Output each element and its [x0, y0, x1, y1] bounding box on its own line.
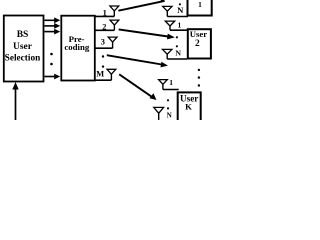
svg-text:2: 2 [195, 39, 200, 49]
user 2 antenna 1 funnel [165, 21, 174, 26]
radiating line antenna 1 to user 1 [118, 1, 164, 11]
svg-text:User: User [190, 29, 208, 39]
block User 1 (top cut off) [188, 0, 212, 16]
user 1 antenna N mast [166, 11, 168, 16]
svg-text:N: N [175, 48, 181, 57]
block BS User Selection [4, 16, 44, 82]
user 2 antenna N mast [166, 54, 168, 59]
antenna 2 funnel [110, 20, 119, 25]
svg-text:1: 1 [169, 78, 173, 87]
antenna M funnel [107, 69, 116, 74]
arrow BS to precoding 2 [45, 25, 56, 27]
svg-text:1: 1 [198, 0, 202, 9]
feed line antenna 1 [95, 15, 114, 17]
svg-text:coding: coding [64, 42, 90, 52]
arrow BS to precoding 3 [45, 31, 56, 33]
radiating arrow 3 (to middle users) [107, 55, 162, 64]
svg-text:N: N [167, 112, 173, 120]
feed line antenna M [95, 79, 111, 81]
mast antenna 1 [113, 10, 115, 16]
dot above N (user 1) [179, 3, 181, 5]
svg-text:M: M [96, 69, 104, 78]
svg-text:Selection: Selection [5, 54, 41, 64]
user 2 antenna 1 feed [170, 29, 187, 31]
block User K [178, 92, 201, 122]
radiating arrow antenna 2 to user 2 [119, 29, 168, 36]
block User 2 [188, 29, 211, 58]
user K antenna 1 feed [163, 89, 179, 91]
dots user K antennas [167, 99, 169, 101]
feed line antenna 2 [95, 29, 114, 31]
svg-text:2: 2 [102, 22, 106, 31]
user 1 antenna N funnel [163, 6, 172, 11]
arrow BS to precoding 1 [45, 19, 56, 21]
radiating arrow antenna M to user K [119, 74, 152, 97]
mast antenna 2 [113, 25, 115, 31]
antenna 1 funnel [110, 6, 119, 11]
mast antenna M [110, 74, 112, 80]
arrow BS to precoding bottom [45, 76, 56, 78]
feed line antenna 3 [95, 47, 113, 49]
antenna 3 funnel [108, 37, 117, 42]
svg-text:K: K [185, 102, 192, 112]
svg-text:N: N [177, 5, 184, 15]
user K antenna 1 funnel [159, 80, 168, 85]
svg-text:BS: BS [17, 30, 29, 40]
input arrow into BS block from bottom [15, 88, 17, 120]
dots between arrows [50, 53, 53, 56]
user K antenna 1 mast [162, 84, 164, 89]
user K antenna N mast [158, 113, 160, 120]
user K antenna N funnel [154, 107, 164, 113]
dots between user 2 and user K [198, 69, 200, 71]
svg-text:User: User [13, 42, 33, 52]
dots between antenna 3 and M [102, 55, 104, 57]
user 2 antenna N feed [167, 58, 187, 60]
mast antenna 3 [112, 42, 114, 49]
svg-text:1: 1 [178, 21, 182, 30]
dots user 2 antennas [176, 36, 178, 38]
user 1 antenna N feed [167, 16, 188, 18]
block Pre-coding [61, 16, 95, 81]
user 2 antenna 1 mast [169, 26, 171, 30]
svg-text:1: 1 [103, 8, 107, 17]
user 2 antenna N funnel [163, 49, 172, 54]
svg-text:3: 3 [101, 38, 105, 47]
